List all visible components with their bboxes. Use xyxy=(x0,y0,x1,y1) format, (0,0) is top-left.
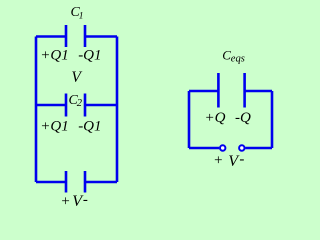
wire: right circuit bottom-left segment xyxy=(189,147,219,150)
label Ceqs xyxy=(222,47,245,64)
wire: right circuit top-left segment xyxy=(189,90,218,93)
wire: left circuit top-right segment xyxy=(85,35,117,38)
svg-text:-Q: -Q xyxy=(235,110,251,126)
voltage source V terminals (left circuit) xyxy=(66,171,85,193)
svg-text:+: + xyxy=(60,193,70,209)
wire: left circuit top-left segment xyxy=(36,35,66,38)
svg-text:-: - xyxy=(239,151,244,167)
wire: right circuit left vertical xyxy=(188,91,191,148)
wire: right circuit top-right segment xyxy=(245,90,272,93)
wire: right circuit bottom-right segment xyxy=(245,147,272,150)
wire: left circuit middle-left segment xyxy=(36,104,66,107)
svg-text:-: - xyxy=(83,192,88,208)
svg-text:-Q1: -Q1 xyxy=(78,119,101,135)
wire: left circuit bottom-left segment xyxy=(36,181,66,184)
label C1 xyxy=(71,5,84,21)
svg-text:V: V xyxy=(71,69,82,86)
label C2 xyxy=(69,93,83,109)
capacitor C1 xyxy=(66,25,85,47)
wire: left circuit middle-right segment xyxy=(85,104,117,107)
svg-text:+Q1: +Q1 xyxy=(40,48,68,64)
terminal node (left) xyxy=(220,145,225,150)
svg-text:+: + xyxy=(213,153,223,169)
svg-text:2: 2 xyxy=(77,98,83,109)
svg-text:+Q1: +Q1 xyxy=(40,119,68,135)
svg-text:eqs: eqs xyxy=(231,53,245,64)
wire: left circuit bottom-right segment xyxy=(85,181,117,184)
svg-text:-Q1: -Q1 xyxy=(78,48,101,64)
wire: right circuit right vertical xyxy=(271,91,274,148)
wire: left circuit right vertical xyxy=(116,37,119,183)
svg-text:+Q: +Q xyxy=(205,110,226,126)
terminal node (right) xyxy=(239,145,244,150)
capacitor Ceqs plates xyxy=(218,73,244,108)
capacitor C2 xyxy=(66,94,85,117)
svg-text:1: 1 xyxy=(79,11,84,21)
wire: left circuit left vertical xyxy=(35,37,38,183)
